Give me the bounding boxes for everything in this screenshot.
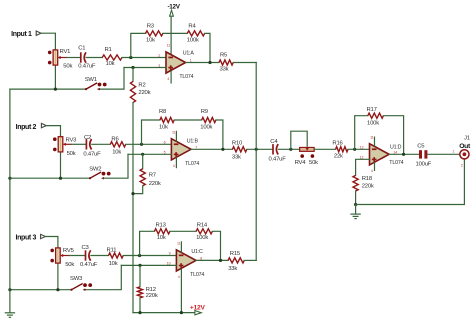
svg-text:C4: C4 xyxy=(270,139,278,145)
wire feedback vertical to R17 xyxy=(355,116,368,150)
op-amp U1:C xyxy=(176,250,196,271)
wire R16 to U1:D pin13 xyxy=(348,148,370,150)
svg-text:11: 11 xyxy=(370,135,374,139)
resistor R18 220k vertical xyxy=(356,159,370,175)
svg-text:U1:A: U1:A xyxy=(183,51,195,57)
switch SW2 xyxy=(89,177,91,179)
svg-text:50k: 50k xyxy=(309,160,318,166)
power -12V terminal arrow xyxy=(170,10,174,16)
node R7 to bus junction xyxy=(131,192,134,195)
svg-text:0.47uF: 0.47uF xyxy=(269,156,287,162)
resistor R12 220k vertical xyxy=(139,265,141,286)
node R2 tap xyxy=(131,66,134,69)
svg-text:Input 2: Input 2 xyxy=(16,124,37,131)
svg-text:50k: 50k xyxy=(63,64,72,70)
svg-text:100k: 100k xyxy=(367,120,379,126)
node RV3 bottom junction xyxy=(59,177,62,180)
U1:B bottom power stub xyxy=(175,158,177,168)
svg-text:10k: 10k xyxy=(106,61,115,67)
capacitor C5 100uF polarized xyxy=(419,150,422,158)
node output junction D xyxy=(402,153,405,156)
svg-text:0.47uF: 0.47uF xyxy=(83,152,101,158)
node R12 tap xyxy=(138,264,141,267)
node junction R13 tap xyxy=(138,254,141,257)
svg-text:SW1: SW1 xyxy=(85,77,97,83)
wire RV1 body vertical xyxy=(54,49,56,89)
wire R10 to mix node xyxy=(247,148,273,150)
resistor R6 xyxy=(110,142,125,147)
wire U1:B pin5 xyxy=(128,153,171,155)
svg-text:33k: 33k xyxy=(232,154,241,160)
potentiometer RV4 horizontal xyxy=(300,148,314,152)
svg-text:50k: 50k xyxy=(65,262,74,268)
node output junction ch2 xyxy=(221,148,224,151)
U1:B top power stub xyxy=(175,131,177,141)
wire -12V to U1:A pin11 xyxy=(170,16,172,54)
node RV1 bottom junction xyxy=(54,88,57,91)
node junction R8 tap xyxy=(140,143,143,146)
wire feedback vertical to R8 xyxy=(142,120,160,144)
wire feedback vertical to R13 xyxy=(140,231,155,255)
potentiometer RV1 xyxy=(53,50,58,65)
wire SW2 corner to pin5 xyxy=(104,154,128,178)
wire C2 to R6 xyxy=(92,143,111,145)
svg-text:11: 11 xyxy=(167,44,171,48)
capacitor C2 xyxy=(85,139,87,149)
wire U1:C pin10 xyxy=(121,264,176,266)
U1:C bottom power pin to +12V rail xyxy=(180,269,182,313)
resistor R15 xyxy=(228,258,244,263)
node junction R3 tap xyxy=(129,56,132,59)
svg-text:RV1: RV1 xyxy=(60,49,71,55)
wire R12 bottom to rail xyxy=(139,298,141,313)
svg-text:R14: R14 xyxy=(197,223,208,229)
svg-text:220k: 220k xyxy=(146,293,158,299)
resistor R9 xyxy=(202,117,216,122)
svg-text:R9: R9 xyxy=(201,109,208,115)
svg-text:R4: R4 xyxy=(188,24,196,30)
switch SW1 xyxy=(85,88,87,90)
op-amp U1:D xyxy=(370,144,390,165)
ground symbol left xyxy=(5,312,15,314)
svg-text:Input 3: Input 3 xyxy=(16,234,37,241)
svg-text:R8: R8 xyxy=(159,109,167,115)
wire feedback left vertical to R3 xyxy=(131,33,146,57)
connector J1 xyxy=(460,150,469,159)
wire mixing bus vertical xyxy=(255,63,257,261)
svg-text:10k: 10k xyxy=(159,125,168,131)
wire ground bus to SW3 xyxy=(10,289,72,291)
wire SW1 corner to pin3 xyxy=(98,68,124,90)
node junction R17 tap xyxy=(353,148,356,151)
node bus tap SW3 / ground xyxy=(8,288,11,291)
svg-text:10k: 10k xyxy=(112,149,121,155)
wire C3 to R11 xyxy=(91,255,109,257)
svg-text:4: 4 xyxy=(167,77,169,81)
svg-text:U1:C: U1:C xyxy=(191,249,203,255)
svg-text:RV3: RV3 xyxy=(66,137,78,143)
svg-text:TL074: TL074 xyxy=(185,161,199,167)
node RV4 wiper loop tap xyxy=(289,148,292,151)
svg-text:J1: J1 xyxy=(464,136,470,142)
svg-text:220k: 220k xyxy=(362,184,374,190)
wire U1:D out to C5 xyxy=(389,153,419,155)
resistor R3 xyxy=(146,31,163,36)
wire R6 to U1:B pin6 xyxy=(126,143,172,145)
wire RV5 wiper to C3 xyxy=(69,255,85,257)
wire R3 to R4 xyxy=(163,32,187,34)
svg-text:TL074: TL074 xyxy=(179,74,193,80)
wire R15 to mix bus xyxy=(244,259,256,261)
svg-text:C5: C5 xyxy=(417,143,425,149)
svg-text:R10: R10 xyxy=(232,140,243,146)
potentiometer RV5 xyxy=(56,248,61,263)
svg-text:2: 2 xyxy=(158,54,160,58)
svg-text:50k: 50k xyxy=(67,151,76,157)
svg-text:220k: 220k xyxy=(138,90,150,96)
svg-text:R11: R11 xyxy=(107,247,117,253)
capacitor C3 xyxy=(85,250,87,260)
resistor R4 xyxy=(187,31,204,36)
wire R4 to output node xyxy=(205,33,210,62)
wire left ground bus vertical xyxy=(9,89,11,312)
resistor R10 xyxy=(232,147,246,152)
node R7 tap xyxy=(141,153,144,156)
wire RV4 wiper loop xyxy=(291,131,307,149)
op-amp U1:A xyxy=(166,52,186,73)
node U1:C pin4 rail junction xyxy=(180,311,183,314)
U1:C top power stub xyxy=(180,242,182,252)
wire R7 bottom to rail bus xyxy=(133,186,143,194)
resistor R5 xyxy=(219,60,233,65)
resistor R8 xyxy=(160,117,174,122)
svg-text:10k: 10k xyxy=(109,261,118,267)
svg-text:100k: 100k xyxy=(196,235,208,241)
svg-text:22k: 22k xyxy=(334,153,343,159)
svg-text:1: 1 xyxy=(452,149,454,153)
ground symbol right xyxy=(355,205,357,214)
svg-text:220k: 220k xyxy=(149,181,161,187)
wire R1 to U1:A pin2 xyxy=(122,57,166,59)
svg-text:R17: R17 xyxy=(367,107,377,113)
svg-text:SW2: SW2 xyxy=(89,166,101,172)
wire U1:C out to R15 xyxy=(196,259,228,261)
node mix bus junction xyxy=(255,148,258,151)
resistor R14 xyxy=(196,229,212,234)
node ground junction xyxy=(354,203,357,206)
svg-text:R7: R7 xyxy=(149,173,156,179)
capacitor C1 xyxy=(80,52,82,62)
svg-text:6: 6 xyxy=(164,141,166,145)
resistor R2 220k vertical xyxy=(132,68,134,82)
svg-text:+12V: +12V xyxy=(190,304,206,311)
svg-text:11: 11 xyxy=(172,130,176,134)
wire RV3 wiper to C2 xyxy=(72,143,86,145)
svg-text:C3: C3 xyxy=(82,245,90,251)
svg-text:13: 13 xyxy=(360,146,364,150)
svg-text:C2: C2 xyxy=(84,135,91,141)
svg-text:4: 4 xyxy=(173,164,175,168)
svg-text:0.47uF: 0.47uF xyxy=(80,262,98,268)
U1:D top power stub xyxy=(374,137,376,146)
wire input1 to RV1 top xyxy=(41,33,55,50)
svg-text:R6: R6 xyxy=(111,137,119,143)
svg-text:RV4: RV4 xyxy=(295,160,307,166)
svg-text:R1: R1 xyxy=(105,47,112,53)
svg-text:RV5: RV5 xyxy=(63,248,75,254)
wire R13 to R14 xyxy=(170,230,196,232)
power +12V terminal arrow xyxy=(195,311,201,315)
svg-text:100k: 100k xyxy=(187,38,199,44)
wire R14 to output node ch3 xyxy=(212,231,220,260)
wire R17 to output node D xyxy=(383,116,403,155)
node output junction ch3 xyxy=(219,259,222,262)
svg-text:33k: 33k xyxy=(220,66,229,72)
wire ground bus to SW2 xyxy=(10,177,90,179)
wire R18 bottom to ground xyxy=(355,191,357,205)
wire ground bus to SW1 xyxy=(10,88,86,90)
svg-text:R2: R2 xyxy=(138,83,145,89)
svg-text:4: 4 xyxy=(178,275,180,279)
input terminal Input1 xyxy=(36,31,41,35)
wire U1:B out to R10 xyxy=(191,148,232,150)
node R12 rail junction xyxy=(138,311,141,314)
op-amp U1:B xyxy=(171,139,191,160)
potentiometer RV3 xyxy=(58,137,63,152)
wire RV3 body vertical xyxy=(60,136,62,178)
wire C1 to R1 xyxy=(86,57,102,59)
svg-text:U1:B: U1:B xyxy=(187,139,199,145)
wire RV4 to R16 xyxy=(314,148,336,150)
U1:D bottom power stub xyxy=(374,163,376,171)
svg-text:9: 9 xyxy=(169,252,171,256)
svg-text:100k: 100k xyxy=(200,125,212,131)
wire input2 to RV3 xyxy=(46,126,60,137)
switch SW3 xyxy=(70,289,72,291)
input terminal Input3 xyxy=(41,234,46,238)
svg-text:10k: 10k xyxy=(157,235,166,241)
wire R11 to U1:C pin9 xyxy=(123,255,176,257)
resistor R7 220k vertical xyxy=(142,154,144,169)
svg-text:100uF: 100uF xyxy=(416,162,432,168)
svg-text:C1: C1 xyxy=(78,46,85,52)
svg-text:10k: 10k xyxy=(146,38,155,44)
wire R8 to R9 xyxy=(174,119,202,121)
svg-text:Input 1: Input 1 xyxy=(11,31,32,38)
U1:A bottom power stub xyxy=(170,71,172,83)
svg-text:-12V: -12V xyxy=(167,3,180,10)
wire RV1 wiper to C1 xyxy=(67,57,81,59)
wire U1:A out to R5 xyxy=(186,62,219,64)
wire RV5 body vertical xyxy=(57,248,59,290)
resistor R1 xyxy=(102,55,122,60)
wire R5 to mix bus xyxy=(233,62,256,64)
svg-text:R3: R3 xyxy=(147,24,155,30)
svg-text:R15: R15 xyxy=(230,251,241,257)
wire C4 to RV4 xyxy=(278,148,299,150)
svg-text:R12: R12 xyxy=(146,287,156,293)
wire C5 to J1 xyxy=(427,153,459,155)
wire +12V rail xyxy=(133,312,195,314)
svg-text:11: 11 xyxy=(177,242,181,246)
svg-text:Out: Out xyxy=(459,143,471,150)
svg-text:R18: R18 xyxy=(362,176,373,182)
wire ground to J1 sleeve xyxy=(356,159,465,205)
svg-text:4: 4 xyxy=(371,169,373,173)
wire R9 to output node ch2 xyxy=(216,120,223,149)
svg-text:R13: R13 xyxy=(156,223,167,229)
svg-text:R5: R5 xyxy=(220,52,228,58)
svg-text:33k: 33k xyxy=(228,266,237,272)
svg-text:TL074: TL074 xyxy=(190,272,204,278)
wire input3 to RV5 xyxy=(45,237,58,249)
node RV5 bottom junction xyxy=(56,288,59,291)
wire SW3 corner to pin10 xyxy=(85,265,122,289)
resistor R17 xyxy=(368,113,384,118)
node output junction ch1 xyxy=(208,61,211,64)
svg-text:TL074: TL074 xyxy=(389,160,403,166)
resistor R16 xyxy=(336,147,348,152)
capacitor C4 xyxy=(272,144,274,154)
resistor R13 xyxy=(154,229,170,234)
svg-text:0.47uF: 0.47uF xyxy=(78,63,96,69)
node bus tap SW2 xyxy=(8,177,11,180)
svg-text:SW3: SW3 xyxy=(70,276,83,282)
svg-text:2: 2 xyxy=(461,163,463,167)
wire R2 bottom to +12V rail bus xyxy=(132,103,134,313)
wire U1:A pin3 xyxy=(124,67,166,69)
input terminal Input2 xyxy=(41,123,46,127)
resistor R11 xyxy=(109,253,124,258)
svg-text:R16: R16 xyxy=(332,141,343,147)
